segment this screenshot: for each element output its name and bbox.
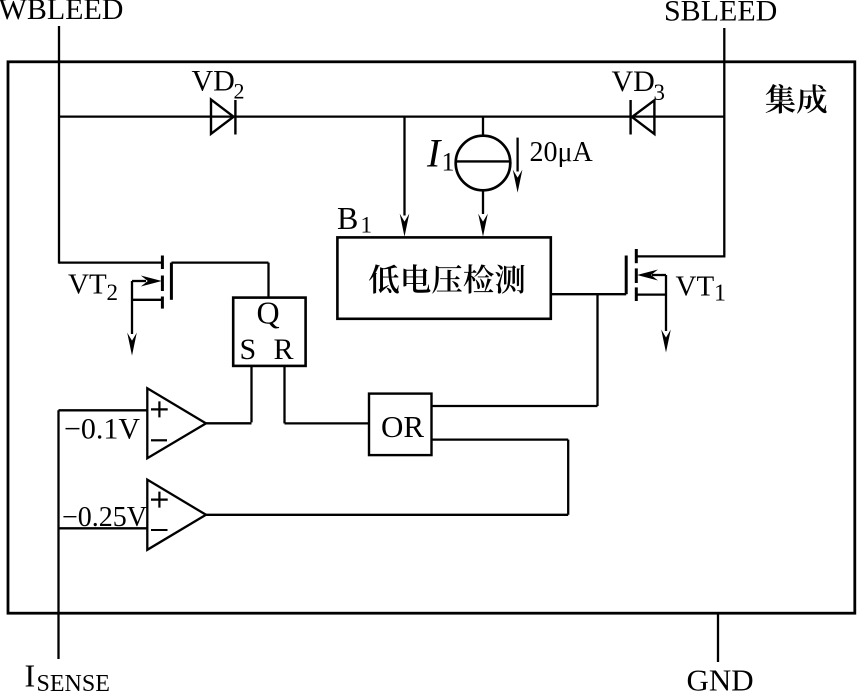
svg-text:SENSE: SENSE bbox=[37, 671, 110, 695]
svg-text:1: 1 bbox=[442, 148, 455, 177]
svg-text:WBLEED: WBLEED bbox=[0, 0, 123, 26]
svg-text:2: 2 bbox=[107, 280, 119, 305]
svg-text:VT: VT bbox=[676, 271, 715, 303]
svg-text:SBLEED: SBLEED bbox=[664, 0, 777, 28]
svg-text:GND: GND bbox=[687, 663, 754, 695]
svg-text:1: 1 bbox=[361, 213, 373, 238]
svg-text:B: B bbox=[337, 200, 358, 236]
svg-text:S: S bbox=[240, 333, 257, 366]
svg-text:3: 3 bbox=[654, 80, 666, 105]
svg-text:−0.1V: −0.1V bbox=[64, 412, 140, 445]
svg-text:R: R bbox=[274, 333, 294, 366]
svg-text:Q: Q bbox=[257, 295, 280, 331]
svg-text:VD: VD bbox=[612, 65, 655, 98]
svg-text:20μA: 20μA bbox=[530, 137, 594, 168]
svg-text:1: 1 bbox=[714, 281, 726, 307]
svg-text:VD: VD bbox=[192, 65, 235, 98]
svg-text:2: 2 bbox=[234, 79, 245, 104]
svg-text:I: I bbox=[25, 658, 36, 694]
svg-text:VT: VT bbox=[68, 269, 107, 301]
svg-text:−0.25V: −0.25V bbox=[62, 502, 147, 533]
svg-text:I: I bbox=[426, 131, 442, 176]
svg-text:OR: OR bbox=[381, 409, 424, 444]
